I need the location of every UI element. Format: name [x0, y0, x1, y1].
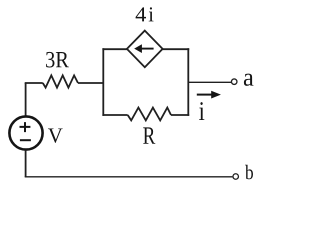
wire 3R right lead to loop left side [78, 82, 103, 84]
label b [245, 165, 253, 179]
wire to terminal a [188, 81, 231, 83]
wire from voltage source top to 3R line [25, 83, 27, 116]
label 3R [46, 52, 69, 68]
wire loop top left segment [102, 48, 127, 50]
label V [48, 128, 63, 142]
wire loop top right segment [163, 48, 190, 50]
label i [199, 102, 204, 120]
label a [244, 74, 254, 86]
voltage source V [9, 116, 42, 149]
label R [143, 127, 155, 143]
wire loop bottom left lead [102, 114, 127, 116]
resistor 3R [43, 75, 78, 87]
current arrow i [197, 91, 221, 99]
wire 3R left lead [25, 82, 43, 84]
node b terminal circle [233, 174, 239, 180]
dependent current source U1 4i diamond [127, 31, 163, 68]
wire to terminal b [25, 176, 233, 178]
label 4i [136, 7, 146, 21]
resistor R [128, 108, 171, 121]
wire from voltage source bottom down [25, 150, 27, 177]
wire loop right vertical [187, 48, 189, 116]
node a terminal circle [231, 79, 237, 85]
wire loop bottom right lead [171, 114, 189, 116]
wire loop left vertical [102, 48, 104, 116]
